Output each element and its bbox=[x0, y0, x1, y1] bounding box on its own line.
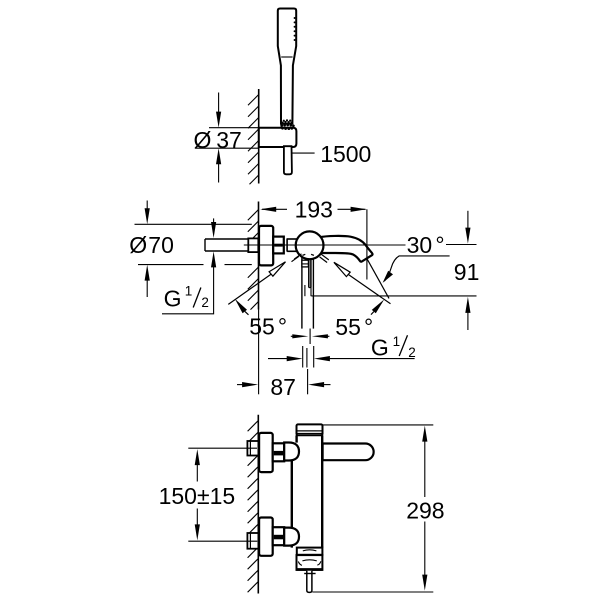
30° arrow bbox=[383, 271, 393, 283]
left 55° angle arrow bbox=[235, 299, 247, 313]
left 55° diagonal line bbox=[228, 274, 271, 304]
spray face speckles in bracket bbox=[280, 119, 294, 130]
svg-text:55: 55 bbox=[249, 313, 275, 339]
193 right extension line bbox=[366, 209, 368, 279]
svg-text:150±15: 150±15 bbox=[159, 483, 236, 509]
upper wall stub bbox=[247, 441, 258, 456]
svg-text:55: 55 bbox=[335, 314, 361, 340]
svg-text:70: 70 bbox=[148, 232, 174, 258]
dimension 91 arrows bbox=[467, 211, 469, 229]
svg-text:87: 87 bbox=[270, 374, 296, 400]
upper escutcheon bbox=[259, 433, 273, 472]
escutcheon (middle view) bbox=[259, 226, 273, 266]
svg-text:2: 2 bbox=[408, 345, 416, 360]
upper union nut bbox=[273, 443, 285, 461]
dimension Ø37 extension lines bbox=[209, 127, 259, 129]
hand shower (head + handle) bbox=[278, 9, 296, 124]
cartridge body circle bbox=[296, 231, 324, 259]
dimension 87 arrows bbox=[237, 384, 243, 386]
collar at wall bbox=[248, 238, 258, 252]
spout bbox=[319, 236, 373, 262]
hose outlet junction ticks at circle bottom bbox=[303, 254, 306, 255]
supply pipe stub behind wall bbox=[205, 239, 249, 251]
hose G1/2 dimension extension dashes bbox=[302, 346, 304, 368]
shower hose stub bbox=[284, 146, 292, 174]
87 right extension line bbox=[307, 369, 309, 394]
left 55° stub ticks at body bbox=[294, 254, 301, 259]
55° angle bow-tie arrows at hose centerline bbox=[291, 335, 293, 337]
bottom band 2 (aerator housing) bbox=[297, 555, 323, 570]
dimension 298 extension lines bbox=[323, 424, 434, 426]
dimension 150±15 extension lines bbox=[188, 447, 257, 449]
wall (lower section) bbox=[248, 415, 259, 594]
body top cap bbox=[297, 424, 323, 435]
wall bracket (shower holder) bbox=[259, 128, 297, 147]
lower wall stub bbox=[247, 533, 258, 549]
dimension G1/2 (left inlet) arrows bbox=[213, 218, 215, 222]
dimension Ø37 top arrow bbox=[218, 93, 220, 113]
svg-text:37: 37 bbox=[216, 127, 242, 153]
hose outlet below body bbox=[302, 257, 314, 329]
hose G1/2 dimension arrows bbox=[268, 358, 287, 360]
svg-text:1500: 1500 bbox=[320, 141, 371, 167]
spout outlet axis line (30°) bbox=[367, 259, 389, 298]
dimension 91 extension lines bbox=[446, 244, 477, 246]
svg-text:91: 91 bbox=[454, 259, 480, 285]
hand shower joint line bbox=[281, 56, 292, 58]
hose centerline dash bbox=[309, 329, 311, 345]
30° leader underline bbox=[399, 255, 450, 257]
wall (top section) bbox=[248, 89, 259, 184]
left 55° open arrow bbox=[269, 262, 285, 276]
wall extension line down to 87 dimension bbox=[258, 310, 260, 395]
wall (middle section) bbox=[248, 202, 259, 310]
lower escutcheon bbox=[259, 518, 273, 556]
right 55° diagonal line bbox=[348, 274, 390, 303]
union nut (middle view) bbox=[273, 237, 284, 254]
svg-text:Ø: Ø bbox=[129, 232, 147, 258]
svg-text:°: ° bbox=[435, 232, 444, 258]
upper dome connector bbox=[284, 443, 299, 461]
dimension Ø70 extension lines bbox=[135, 223, 252, 225]
horizontal centerline through body bbox=[244, 244, 406, 246]
dimension 150±15 arrows bbox=[195, 449, 200, 465]
lower dome connector bbox=[284, 528, 299, 546]
svg-text:1: 1 bbox=[393, 334, 401, 349]
dimension 193 line and arrows bbox=[262, 208, 287, 210]
washer and inlet pipe to body bbox=[287, 238, 296, 251]
body tube bbox=[292, 435, 322, 547]
dimension 298 arrows bbox=[422, 426, 427, 442]
svg-text:°: ° bbox=[278, 313, 287, 339]
svg-text:30: 30 bbox=[407, 232, 433, 258]
svg-text:Ø: Ø bbox=[194, 127, 212, 153]
lower union nut bbox=[273, 527, 285, 545]
svg-text:G: G bbox=[164, 286, 182, 312]
bottom band 1 bbox=[297, 548, 323, 555]
svg-text:G: G bbox=[371, 335, 389, 361]
svg-text:2: 2 bbox=[201, 295, 209, 310]
svg-text:193: 193 bbox=[295, 196, 333, 222]
right 55° stub ticks at body bbox=[321, 254, 329, 260]
right 55° angle arrow bbox=[372, 299, 384, 313]
hand shower spray-edge dots bbox=[294, 17, 296, 41]
svg-text:1: 1 bbox=[185, 283, 193, 298]
handle lever bbox=[323, 444, 374, 461]
leader line 1500 bbox=[292, 152, 315, 154]
30° leader arc bbox=[384, 256, 399, 281]
dimension Ø37 bottom arrow bbox=[218, 164, 220, 183]
dimension Ø70 arrows bbox=[146, 201, 148, 210]
right 55° open arrow bbox=[334, 262, 350, 276]
hose outlet nipple bbox=[297, 568, 323, 571]
svg-text:298: 298 bbox=[406, 498, 444, 524]
